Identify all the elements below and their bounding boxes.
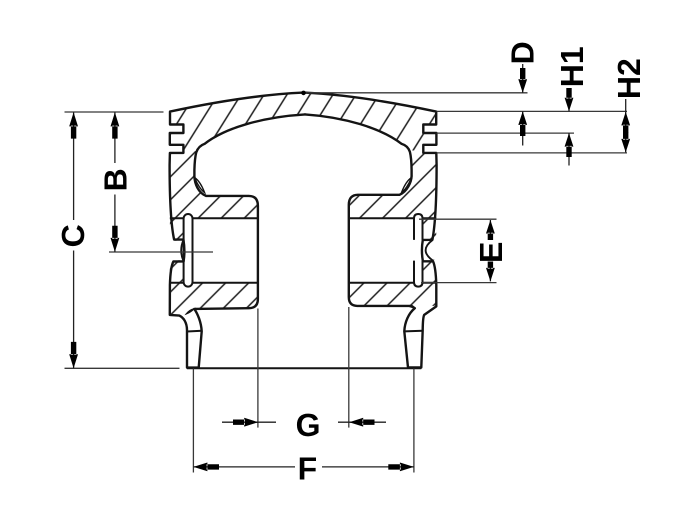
outer profile left half (170, 93, 305, 368)
arrow F right (388, 463, 414, 472)
piston section hatched silhouette (170, 93, 437, 316)
arrow C up (69, 112, 78, 138)
ext line F left (192, 369, 194, 473)
notch arc left (181, 240, 183, 261)
skirt open-end bottom edge (187, 367, 421, 369)
arrow H2 down (inside) (621, 132, 630, 152)
ext line crown tangent (306, 92, 528, 94)
pin bore left (white) (193, 218, 258, 282)
ext line B bottom (109, 251, 213, 253)
skirt notch right (white) (413, 241, 437, 260)
ext line E top (419, 218, 497, 220)
ring groove 2 right (white) (423, 145, 438, 153)
E dimension line (489, 220, 491, 281)
ext line top land (437, 110, 628, 112)
arrow E up (486, 220, 495, 240)
ext line groove2 bottom (437, 152, 628, 154)
ext line F right (413, 369, 415, 473)
D dimension line (522, 64, 524, 146)
ext line E bottom (421, 282, 497, 284)
leg break line right (404, 330, 423, 333)
cavity interior (white) (194, 114, 411, 400)
svg-text:F: F (298, 450, 318, 486)
arrows (black) (69, 68, 630, 471)
arrow C down (69, 342, 78, 368)
svg-text:D: D (505, 41, 541, 64)
arrow D up (below land line) (518, 111, 527, 136)
arrow E down (486, 262, 495, 282)
C dimension line (73, 112, 75, 368)
ring groove 1 right (white) (423, 125, 438, 134)
H1 dimension line (568, 88, 570, 166)
outer profile right half (304, 93, 437, 368)
ext line groove1 bottom (437, 132, 575, 134)
ext line top-left (B/C datum) (65, 111, 164, 113)
arrow H2 up (inside) (621, 112, 630, 133)
F dimension line (193, 466, 414, 468)
notch arc right (426, 240, 433, 261)
arrow H1 down (565, 88, 574, 111)
lower white region below bosses (140, 306, 445, 440)
svg-text:C: C (55, 224, 91, 247)
crown zone steeper hatch overlay (170, 93, 437, 151)
ext line G left (257, 309, 259, 428)
ring groove 2 left (white) (169, 145, 184, 153)
fillet lens left (195, 178, 205, 193)
arrow H1 up (565, 133, 574, 157)
arrow B down (111, 226, 120, 252)
pin bore bottom line right (349, 282, 437, 284)
svg-text:B: B (97, 168, 133, 191)
fillet lens right (402, 178, 412, 193)
ext line C bottom (65, 367, 180, 369)
arrow G right(point left) (349, 418, 374, 427)
leg break line left (187, 330, 202, 333)
svg-text:H2: H2 (611, 58, 647, 99)
H2 dimension line (625, 99, 627, 152)
svg-text:G: G (296, 407, 321, 443)
arrow D down (above tangent line) (518, 68, 527, 93)
pin bore bottom line left (170, 282, 258, 284)
circlip slot left (white) (184, 214, 193, 287)
fillet lens left-bottom (186, 309, 194, 314)
arrow B up (111, 112, 120, 138)
svg-text:E: E (473, 242, 509, 263)
pin bore top line right (349, 217, 437, 219)
G dimension line (222, 421, 386, 423)
ext line G right (348, 307, 350, 428)
circlip slot right outline (414, 214, 423, 287)
arrow F left (193, 463, 219, 472)
pin bore right (white) (349, 218, 414, 282)
pin bore top line left (170, 217, 258, 219)
skirt notch left (white) (166, 241, 184, 261)
crown peak dot (301, 91, 306, 96)
circlip slot right (white) (414, 214, 423, 287)
wedge line right-bottom (408, 306, 415, 308)
ring groove 1 left (white) (169, 125, 184, 134)
B dimension line (114, 112, 116, 252)
svg-text:H1: H1 (554, 46, 590, 87)
circlip slot left outline (184, 214, 193, 287)
arrow G left(point right) (233, 418, 258, 427)
